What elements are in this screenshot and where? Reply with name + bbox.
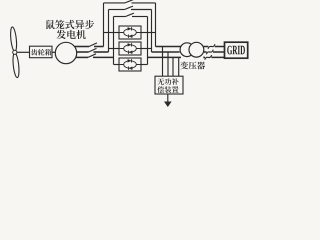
wire left riser phase 3 — [113, 17, 115, 65]
bypass switch 1 — [125, 0, 134, 3]
bypass loop 2 top wire — [109, 9, 125, 11]
bypass loop 1 top wire — [104, 2, 126, 4]
reactive power compensation box 无功补偿装置 — [155, 76, 183, 94]
line break symbol 1 — [208, 44, 215, 49]
wire stub from soft-starter 2 — [141, 48, 152, 50]
shaft wire hub to gearbox — [17, 51, 29, 53]
wire right riser phase 2 — [151, 10, 153, 53]
ground wire — [167, 94, 169, 102]
soft-starter thyristor module 2 — [119, 42, 141, 55]
wire drop 2 to compensation — [167, 52, 169, 76]
wire stub to soft-starter 2 — [109, 48, 120, 50]
rotor hub — [13, 50, 17, 54]
bypass loop 3 top wire — [114, 16, 126, 18]
wire stub from soft-starter 3 — [141, 64, 148, 66]
wire drop 4 to compensation — [178, 57, 180, 76]
line break symbol 2 — [206, 50, 213, 55]
wire stub to soft-starter 1 — [104, 32, 120, 34]
bypass switch 3 — [126, 13, 135, 16]
wire stub from soft-starter 1 — [141, 32, 156, 34]
shaft wire gearbox to generator — [52, 51, 55, 53]
wire right riser phase 3 — [147, 17, 149, 65]
wire stub to soft-starter 3 — [114, 64, 120, 66]
label 变压器 — [180, 61, 188, 69]
breaker switch phase 3 — [88, 54, 96, 58]
wire left riser phase 1 — [103, 3, 105, 47]
breaker switch phase 2 — [89, 48, 97, 52]
label 鼠笼式异步发电机 — [46, 20, 54, 29]
gearbox box 齿轮箱 — [30, 46, 53, 58]
soft-starter thyristor module 1 — [119, 26, 141, 39]
line break symbol 3 — [205, 55, 212, 60]
phase line 2 from generator — [77, 51, 89, 53]
wire left riser phase 2 — [108, 10, 110, 53]
breaker switch phase 1 — [89, 43, 97, 47]
phase line 3 from generator — [76, 56, 88, 58]
transformer T1 primary winding circle — [180, 43, 194, 57]
wind turbine rotor blades — [10, 27, 20, 78]
GRID box — [225, 42, 248, 58]
grid wire phase 2 — [204, 51, 225, 53]
wire drop 1 to compensation — [162, 47, 164, 77]
wire right riser phase 1 — [155, 3, 157, 47]
grid wire phase 3 — [203, 56, 224, 58]
generator G circle — [55, 42, 76, 63]
grid wire phase 1 — [203, 46, 224, 48]
bus wire phase 1 to transformer — [156, 46, 182, 48]
bus wire phase 2 to transformer — [152, 51, 180, 53]
phase line 1 from generator — [75, 46, 89, 48]
wire drop 3 to compensation — [172, 57, 174, 76]
GRID label — [227, 46, 232, 55]
bypass switch 2 — [125, 6, 134, 9]
bus wire phase 3 to transformer — [148, 56, 182, 58]
ground symbol — [164, 102, 172, 108]
transformer T1 secondary winding circle — [189, 42, 204, 57]
soft-starter thyristor module 3 — [119, 58, 141, 71]
